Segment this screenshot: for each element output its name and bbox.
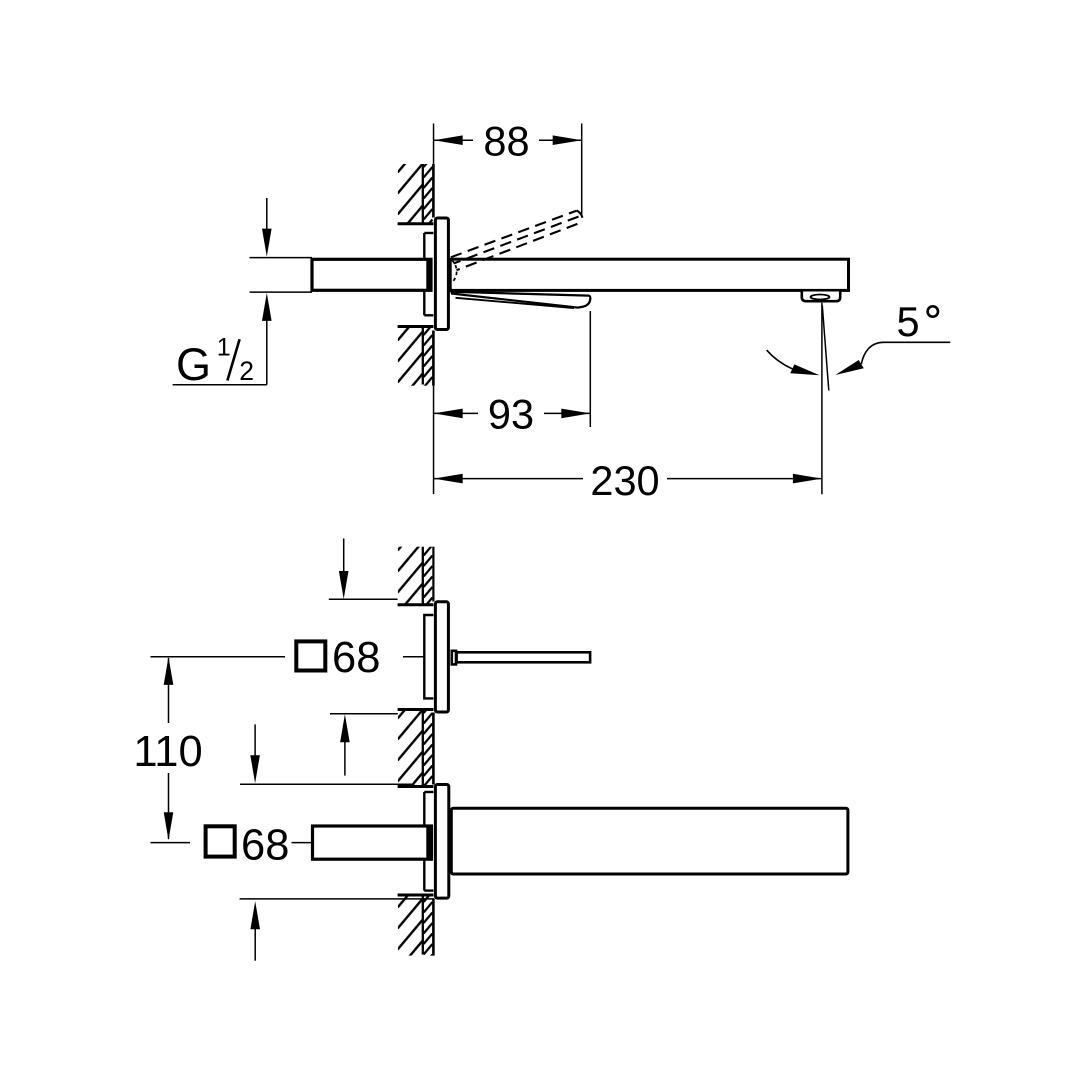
spout (bottom view) [451, 808, 848, 874]
dimension 110 [132, 657, 424, 843]
swivel arc right with arrowhead and 5-degree leader [835, 342, 950, 375]
lower wall opening edges [398, 787, 434, 896]
lower supply nipple [313, 826, 432, 859]
wall hatch lower (side view) [398, 327, 434, 386]
wall opening bottom edge [398, 325, 434, 328]
wall face line (bottom view) [432, 547, 434, 956]
upper wall opening edges [398, 605, 434, 710]
lower plate bottom reference arrow [240, 899, 434, 961]
label 5 degrees [897, 298, 939, 345]
square symbol lower 68 [206, 826, 235, 856]
G 1/2 thread dimension arrows [173, 198, 272, 385]
svg-text:G: G [176, 339, 211, 390]
upper plate bottom reference arrow [330, 714, 398, 776]
lower plate top reference arrow [240, 724, 414, 784]
lower escutcheon plate (spout trim) [435, 785, 448, 899]
swivel arc left with arrowhead [767, 350, 820, 375]
upper plate top reference arrow [329, 539, 398, 600]
wall hatch bottom segment (bottom view) [398, 895, 434, 956]
escutcheon plate (side view) [435, 218, 448, 330]
upper rough-in box [424, 615, 433, 698]
wall opening top edge [398, 222, 434, 225]
wall face line (side view) [432, 164, 435, 386]
nipple/wall joint dark band [426, 259, 432, 292]
concealed body (rough-in box) [424, 233, 433, 315]
lever open position (dashed) [451, 211, 583, 271]
union nipple G1/2 [312, 259, 431, 290]
lower nipple/wall dark band [426, 826, 432, 860]
outlet aerator slot [811, 295, 830, 300]
wall hatch middle segment (bottom view) [398, 710, 434, 787]
label G 1/2 [176, 334, 254, 390]
dimension 88 [434, 118, 582, 217]
svg-text:93: 93 [488, 391, 534, 438]
svg-text:1: 1 [217, 334, 231, 362]
svg-text:88: 88 [483, 118, 529, 165]
water stream vertical line / 230 extension [821, 303, 823, 495]
svg-text:230: 230 [590, 457, 659, 504]
svg-text:2: 2 [239, 356, 254, 386]
dimension 93 [434, 311, 591, 438]
wall hatch upper (side view) [398, 164, 434, 224]
5-degree tilted stream line [822, 306, 829, 391]
svg-text:68: 68 [332, 634, 380, 682]
lower rough-in box [424, 792, 433, 891]
spout (side view) [450, 259, 848, 290]
svg-text:110: 110 [133, 728, 202, 776]
lever handle base block [452, 651, 456, 665]
wall extension line (thin, below hatch) [433, 386, 435, 494]
upper escutcheon plate (lever trim) [435, 602, 448, 712]
spout outlet (mousseur) [802, 292, 840, 302]
wall hatch top segment (bottom view) [398, 547, 434, 605]
lever handle bar [457, 652, 590, 662]
svg-text:68: 68 [241, 822, 289, 870]
svg-text:5: 5 [897, 298, 920, 345]
square symbol upper 68 [296, 641, 325, 670]
supply pipe stub lines [250, 258, 313, 293]
dimension 230 [434, 457, 822, 504]
lever pivot marks [452, 260, 457, 282]
lever closed position (solid) [452, 292, 591, 308]
